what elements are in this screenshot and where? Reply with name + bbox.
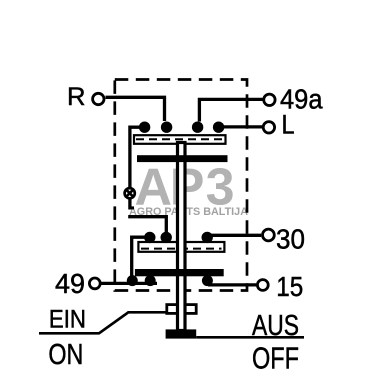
enclosure dashed box: [115, 80, 247, 291]
middle contact dot 3: [202, 232, 213, 243]
svg-text:30: 30: [276, 224, 305, 255]
wire lower contact to terminal 15: [208, 283, 256, 286]
lower contact dot C: [202, 275, 213, 286]
upper contact dot 3: [192, 122, 203, 133]
terminal 30: [263, 229, 275, 241]
pedestal base: [166, 329, 197, 338]
svg-text:OFF: OFF: [252, 341, 299, 373]
upper contact dot 4: [213, 122, 224, 133]
contact bar 1: [137, 155, 228, 162]
terminal R: [93, 93, 104, 104]
upper contact dot 2: [161, 122, 172, 133]
wire upper contact 1 to lamp: [130, 127, 146, 209]
svg-text:15: 15: [276, 271, 303, 302]
switch shaft: [178, 143, 186, 331]
middle contact dot 2: [161, 232, 172, 243]
svg-text:R: R: [67, 83, 86, 111]
middle contact dot 1: [144, 232, 155, 243]
collar on shaft: [167, 305, 196, 314]
svg-text:L: L: [282, 110, 295, 140]
svg-text:AUS: AUS: [252, 310, 299, 342]
watermark AP3 logo: [135, 158, 235, 216]
wire middle contact 1 to node 49: [132, 237, 150, 283]
wire middle contact 3 to terminal 30: [208, 234, 261, 237]
wire terminal 49: [101, 282, 157, 285]
svg-text:EIN: EIN: [49, 306, 86, 334]
wire lamp to middle contact 2: [128, 217, 166, 233]
wire R to upper contact: [106, 97, 165, 121]
svg-text:49: 49: [55, 268, 85, 299]
contact bar 2: [135, 269, 224, 276]
lamp wire stub foot: [130, 206, 134, 209]
upper contact dot 1: [139, 122, 150, 133]
switch lever EIN position line: [39, 312, 167, 333]
lamp indicator: [125, 188, 135, 198]
wire 49a to upper contact: [199, 99, 262, 121]
terminal 49: [89, 278, 100, 289]
svg-text:ON: ON: [48, 339, 83, 371]
terminal L: [263, 122, 274, 133]
AUS position line: [196, 336, 304, 339]
terminal 15: [257, 280, 268, 291]
contact carrier lower bracket: [138, 242, 224, 252]
lower contact dot A: [127, 275, 138, 286]
terminal 49a: [264, 94, 275, 105]
wire L to upper contact: [220, 125, 262, 128]
lower contact dot B: [145, 275, 156, 286]
contact carrier upper bracket: [134, 135, 226, 144]
